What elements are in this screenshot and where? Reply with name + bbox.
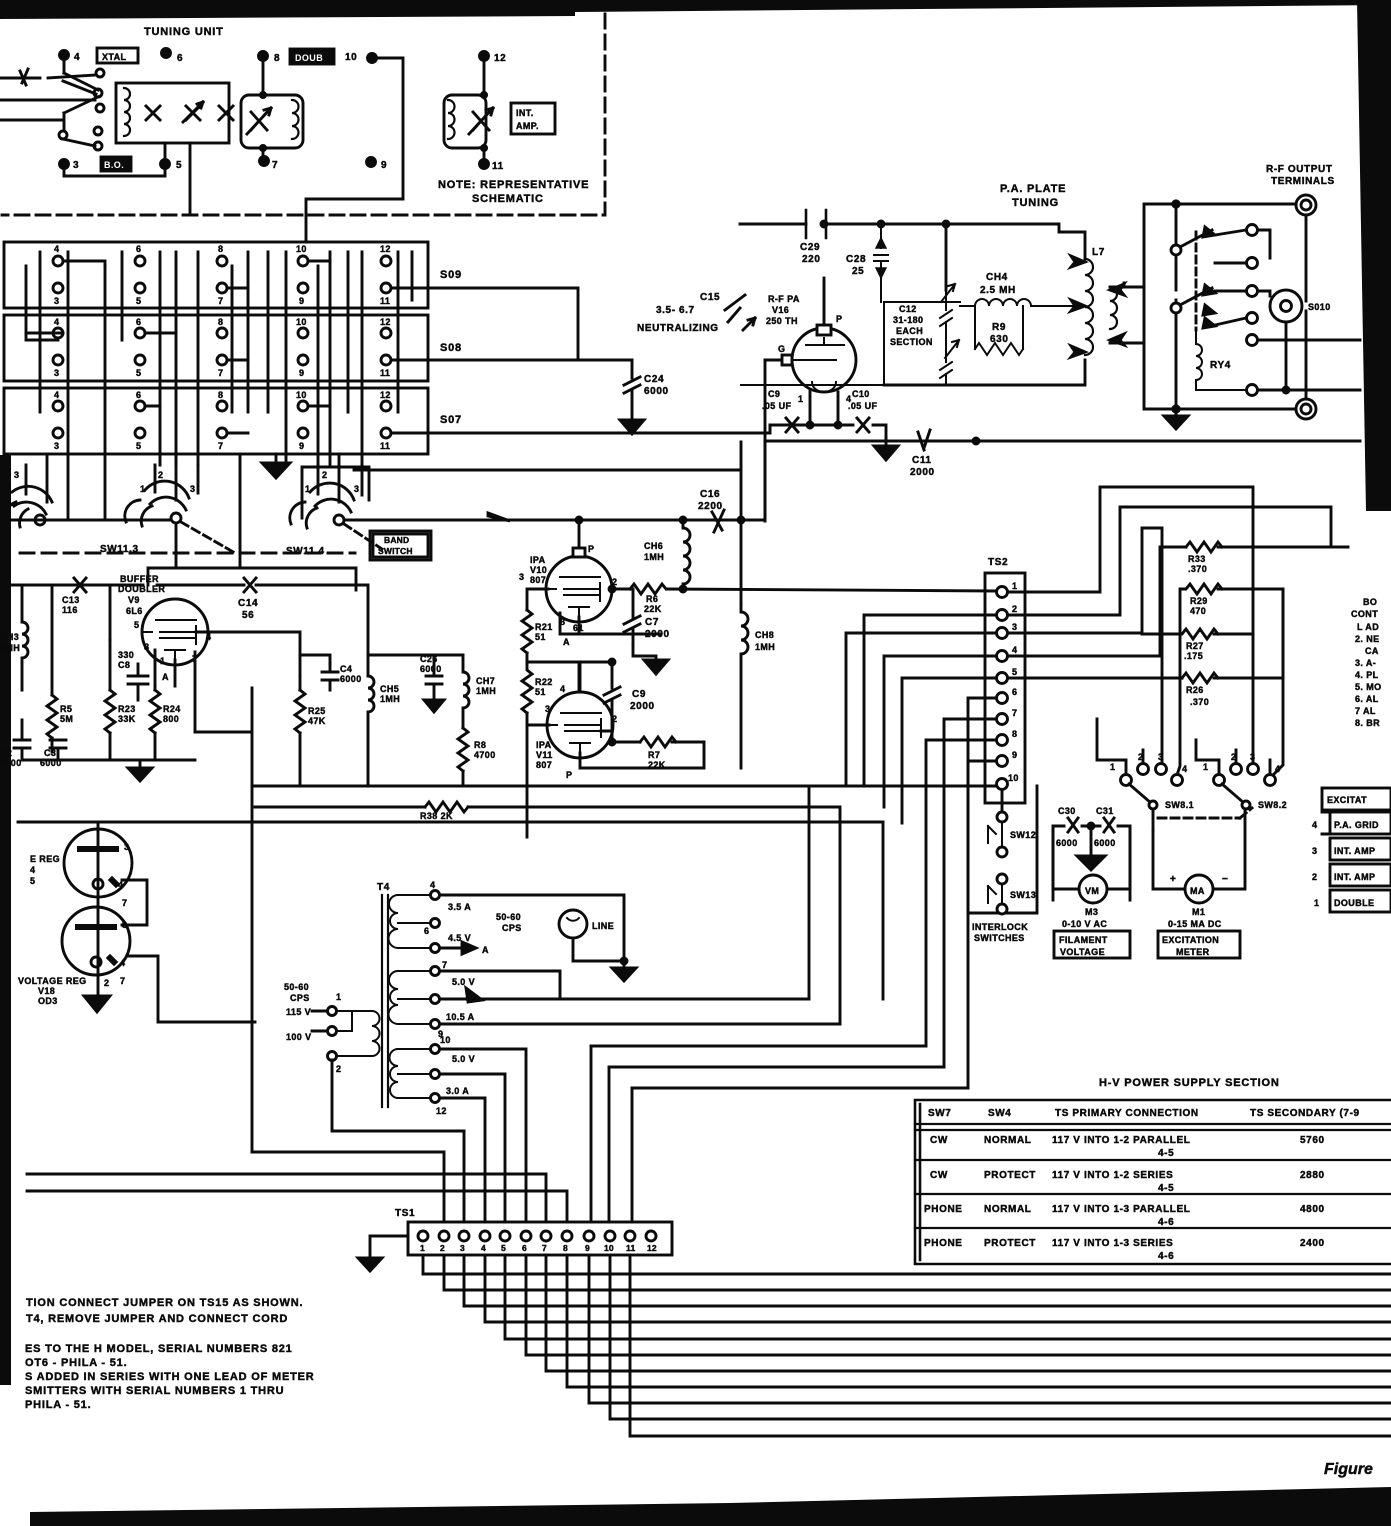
svg-text:SW11.4: SW11.4 <box>286 546 325 557</box>
svg-text:7: 7 <box>218 368 223 378</box>
BAND SWITCH label box <box>370 531 431 560</box>
svg-text:9: 9 <box>1012 750 1017 760</box>
T4 primary winding <box>332 1011 380 1056</box>
svg-text:8: 8 <box>1012 729 1017 739</box>
band switch dashed shaft line <box>20 552 355 555</box>
svg-text:SW8.2: SW8.2 <box>1258 800 1287 810</box>
svg-text:47K: 47K <box>308 716 326 726</box>
FILAMENT VOLTAGE box <box>1054 931 1130 958</box>
svg-text:3: 3 <box>460 1243 465 1253</box>
V16 grid column <box>764 360 767 521</box>
svg-text:2000: 2000 <box>910 467 935 478</box>
svg-text:DOUB: DOUB <box>295 53 323 63</box>
label C3 6000 <box>40 748 62 768</box>
selector contact circles <box>96 69 104 77</box>
svg-text:CW: CW <box>930 1170 948 1181</box>
relay armature pivots <box>1171 245 1181 255</box>
svg-text:8: 8 <box>274 53 280 64</box>
svg-text:CH4: CH4 <box>986 272 1008 283</box>
choke CH6 <box>683 521 690 589</box>
resistor R23 <box>105 640 115 760</box>
svg-text:BUFFER: BUFFER <box>120 574 159 584</box>
rotary wafer SW11.4 arcs <box>290 483 354 528</box>
svg-text:2: 2 <box>104 978 109 988</box>
svg-text:CONT: CONT <box>1351 609 1378 619</box>
svg-text:DOUBLE: DOUBLE <box>1334 898 1374 908</box>
svg-text:115 V: 115 V <box>286 1007 311 1017</box>
label C26 6000 <box>420 654 442 674</box>
wire rotor SW11.3 left <box>9 519 171 522</box>
dot C28 top <box>878 221 884 227</box>
grid rail y585 <box>9 585 368 676</box>
transformer T4 core <box>382 895 388 1107</box>
rotary wafer SW11.4 frame <box>302 467 369 518</box>
svg-text:4: 4 <box>1182 764 1187 774</box>
svg-text:11: 11 <box>492 161 504 172</box>
svg-text:2: 2 <box>1012 604 1017 614</box>
svg-text:R38 2K: R38 2K <box>420 811 453 821</box>
meter MA <box>1185 875 1213 903</box>
fan wire 6 <box>526 1255 1391 1355</box>
svg-text:6000: 6000 <box>340 674 362 684</box>
svg-text:630: 630 <box>990 334 1009 345</box>
SW8 feed wires <box>1097 589 1283 774</box>
label C24 6000 <box>644 374 669 397</box>
svg-text:7: 7 <box>442 960 447 970</box>
svg-text:A: A <box>162 672 169 682</box>
svg-text:PHONE: PHONE <box>924 1238 963 1249</box>
terminal 5 <box>161 160 170 169</box>
svg-text:5: 5 <box>136 368 141 378</box>
svg-text:C7: C7 <box>645 617 659 628</box>
ground below C10 <box>874 446 898 460</box>
hv table header rules <box>915 1124 1391 1228</box>
fan wire 7 <box>546 1255 1391 1371</box>
svg-text:P.A. GRID: P.A. GRID <box>1334 820 1379 830</box>
svg-text:33K: 33K <box>118 714 136 724</box>
SW11.4 pin wires <box>318 454 362 502</box>
label R5 5M <box>60 704 73 724</box>
svg-text:P: P <box>566 770 572 780</box>
resistor R21 <box>522 610 532 662</box>
TS2 t10 bottom stub <box>1001 790 1004 811</box>
meter VM <box>1079 875 1107 903</box>
svg-text:TS PRIMARY CONNECTION: TS PRIMARY CONNECTION <box>1055 1108 1199 1119</box>
svg-text:1: 1 <box>140 484 145 494</box>
svg-text:C24: C24 <box>644 374 664 385</box>
svg-text:NORMAL: NORMAL <box>984 1204 1031 1215</box>
svg-text:INT. AMP: INT. AMP <box>1334 872 1375 882</box>
label R21 51 <box>535 622 553 642</box>
switch arm <box>63 81 96 146</box>
V11 pin2 rail y742 <box>601 731 704 742</box>
svg-text:3: 3 <box>54 441 59 451</box>
excitation selector table <box>1322 788 1391 810</box>
V9 pin numbers <box>134 620 211 682</box>
relay frame wires <box>1144 204 1306 409</box>
label C11 2000 <box>910 455 935 478</box>
svg-text:3: 3 <box>73 160 79 171</box>
svg-text:EXCITATION: EXCITATION <box>1162 935 1219 945</box>
labels 3.5A 4.5V <box>424 880 471 943</box>
TS1 ground <box>370 1236 408 1258</box>
svg-text:4: 4 <box>1275 764 1280 774</box>
label C9 .05 UF <box>762 389 792 411</box>
svg-text:6: 6 <box>424 926 429 936</box>
TS2 terminals <box>997 587 1008 790</box>
vertical x741 pa feed <box>740 442 743 604</box>
capacitor C2 <box>14 720 30 760</box>
svg-text:11: 11 <box>380 441 390 451</box>
svg-text:E REG: E REG <box>30 854 60 864</box>
svg-text:2.5 MH: 2.5 MH <box>980 285 1016 296</box>
svg-text:C3: C3 <box>44 748 56 758</box>
resistor R24 <box>150 686 160 760</box>
svg-text:TERMINALS: TERMINALS <box>1271 176 1335 187</box>
svg-text:AMP.: AMP. <box>516 121 539 131</box>
svg-text:VOLTAGE REG: VOLTAGE REG <box>18 976 87 986</box>
svg-text:7: 7 <box>122 898 127 908</box>
svg-text:3: 3 <box>124 842 129 852</box>
svg-text:R27: R27 <box>1186 641 1204 651</box>
svg-text:9: 9 <box>381 160 387 171</box>
svg-text:22K: 22K <box>648 760 666 770</box>
svg-text:C26: C26 <box>420 654 438 664</box>
svg-text:3: 3 <box>1012 622 1017 632</box>
arrow on drive line <box>488 513 510 521</box>
svg-text:3.0 A: 3.0 A <box>446 1086 469 1096</box>
svg-text:C9: C9 <box>632 689 646 700</box>
choke CH8 <box>741 604 748 768</box>
svg-text:TS1: TS1 <box>395 1208 415 1219</box>
svg-text:7: 7 <box>218 296 223 306</box>
svg-text:CH6: CH6 <box>644 541 663 551</box>
svg-text:470: 470 <box>1190 606 1206 616</box>
wires V9 cathode down <box>155 650 195 732</box>
VR2 pin numbers <box>120 920 127 986</box>
interlock SW12 <box>997 812 1007 822</box>
label R23 33K <box>118 704 136 724</box>
svg-text:.370: .370 <box>1190 697 1209 707</box>
label C15 neutralizing <box>637 292 720 334</box>
svg-text:R24: R24 <box>163 704 181 714</box>
svg-text:5M: 5M <box>60 714 73 724</box>
svg-text:VM: VM <box>1085 886 1099 896</box>
svg-text:4-5: 4-5 <box>1158 1183 1174 1194</box>
primary feed stubs <box>312 1011 464 1131</box>
SW8.2 numbers <box>1203 752 1280 774</box>
svg-text:117 V INTO 1-2 SERIES: 117 V INTO 1-2 SERIES <box>1052 1170 1173 1181</box>
label R9 630 <box>990 322 1009 345</box>
svg-text:C12: C12 <box>899 304 917 314</box>
svg-text:50-60: 50-60 <box>284 982 309 992</box>
svg-text:4: 4 <box>560 684 565 694</box>
S09 contacts row <box>53 256 391 438</box>
svg-text:1MH: 1MH <box>476 686 496 696</box>
switch SW8.2 contacts <box>1214 764 1276 786</box>
wire plate line right: rail y589 <box>612 589 996 591</box>
svg-text:A: A <box>563 637 570 647</box>
wire bank jumpers <box>26 261 330 433</box>
capacitor (xtal tank right) <box>219 106 233 120</box>
rf terminal bottom <box>1296 399 1316 419</box>
svg-text:8: 8 <box>218 244 223 254</box>
TS2 left wires staircase <box>846 615 996 1088</box>
svg-text:T4, REMOVE JUMPER AND CONNE: T4, REMOVE JUMPER AND CONNECT CORD <box>26 1313 288 1325</box>
relay coil <box>1196 330 1246 390</box>
svg-text:R25: R25 <box>308 706 326 716</box>
svg-text:IPA: IPA <box>530 555 546 565</box>
svg-text:5: 5 <box>136 441 141 451</box>
svg-text:CH7: CH7 <box>476 676 495 686</box>
label CH6 1MH <box>644 541 664 562</box>
svg-text:10.5 A: 10.5 A <box>446 1012 475 1022</box>
svg-text:SW8.1: SW8.1 <box>1165 800 1194 810</box>
svg-text:SECTION: SECTION <box>890 337 933 347</box>
capacitor C29 <box>806 210 826 238</box>
label R7 22K <box>648 750 666 770</box>
svg-text:V16: V16 <box>772 305 789 315</box>
svg-text:3: 3 <box>54 296 59 306</box>
relay contact arrows <box>1203 227 1215 328</box>
pa bottom rail y441 <box>765 440 1360 443</box>
svg-text:A: A <box>482 945 489 955</box>
svg-text:6000: 6000 <box>644 386 669 397</box>
choke CH3 <box>22 585 28 690</box>
svg-text:4: 4 <box>54 317 59 327</box>
svg-text:50-60: 50-60 <box>496 912 521 922</box>
label CH5 1MH <box>380 684 400 704</box>
svg-text:2880: 2880 <box>1300 1170 1325 1181</box>
label R26 .370 <box>1186 685 1209 707</box>
variable capacitor (doubler) <box>247 108 271 134</box>
svg-text:1: 1 <box>798 394 803 404</box>
svg-text:TS SECONDARY (7-9: TS SECONDARY (7-9 <box>1250 1108 1360 1119</box>
svg-text:1: 1 <box>336 992 341 1002</box>
svg-text:INT. AMP: INT. AMP <box>1334 846 1375 856</box>
variable capacitor C12b <box>940 340 959 385</box>
svg-text:12: 12 <box>436 1106 447 1116</box>
coil (int amp) <box>448 100 455 139</box>
scan artifact: top black bar <box>0 0 1391 19</box>
junction dots y441 <box>973 438 979 444</box>
svg-text:12: 12 <box>380 244 391 254</box>
svg-text:NOTE: REPRESENTATIVE: NOTE: REPRESENTATIVE <box>438 179 589 191</box>
C12 tank box <box>741 302 960 385</box>
svg-text:L AD: L AD <box>1357 622 1379 632</box>
V11 top pin wire <box>579 662 582 692</box>
svg-text:R22: R22 <box>535 677 553 687</box>
svg-text:3: 3 <box>190 484 195 494</box>
terminal 11 <box>480 160 489 169</box>
doubler tank enclosure <box>241 95 303 148</box>
labels 5.0V 10.5A <box>438 960 475 1039</box>
terminal strip TS1 box <box>408 1222 672 1255</box>
wires secondary3 down to TS1 <box>440 1049 526 1222</box>
svg-text:8: 8 <box>218 390 223 400</box>
svg-text:4-5: 4-5 <box>1158 1148 1174 1159</box>
SW11.3 pin wires <box>155 454 198 500</box>
svg-text:117 V INTO 1-2 PARALLEL: 117 V INTO 1-2 PARALLEL <box>1052 1135 1190 1146</box>
svg-text:10: 10 <box>440 1035 451 1045</box>
svg-text:R21: R21 <box>535 622 553 632</box>
label BUFFER DOUBLER V9 6L6 <box>118 574 165 616</box>
resistor R26 <box>1182 673 1283 683</box>
svg-text:8: 8 <box>144 642 149 652</box>
svg-text:5: 5 <box>176 160 182 171</box>
label CH4 2.5MH <box>980 272 1016 296</box>
svg-text:5. MO: 5. MO <box>1355 682 1382 692</box>
svg-text:B.O.: B.O. <box>104 160 124 170</box>
label 50-60 CPS (lamp) <box>496 912 522 933</box>
svg-text:2: 2 <box>322 470 327 480</box>
switch SW8.1 contacts <box>1121 764 1183 786</box>
svg-text:4. PL: 4. PL <box>1355 670 1379 680</box>
fan wire 2 <box>444 1255 1391 1290</box>
resistor R5 <box>47 585 57 752</box>
svg-text:250 TH: 250 TH <box>766 316 798 326</box>
svg-text:T4: T4 <box>377 882 390 893</box>
switch bank S09 box <box>4 242 428 308</box>
svg-text:6: 6 <box>136 390 141 400</box>
bank crossing vertical wires <box>26 252 412 520</box>
EXCITATION METER box <box>1158 931 1240 958</box>
V16 pin labels <box>778 314 851 404</box>
V10 grid wire to R21 <box>527 589 548 610</box>
relay coil dashed link <box>1195 232 1198 330</box>
V11 plate down and right <box>580 742 704 768</box>
svg-text:SCHEMATIC: SCHEMATIC <box>472 193 544 205</box>
svg-text:R-F OUTPUT: R-F OUTPUT <box>1266 164 1333 175</box>
fan wire 10 <box>610 1255 1391 1419</box>
mid horizontals lower <box>440 999 968 1088</box>
svg-text:10: 10 <box>604 1243 614 1253</box>
vr top rail <box>18 821 883 824</box>
svg-text:807: 807 <box>530 575 546 585</box>
svg-text:12: 12 <box>380 317 391 327</box>
svg-text:R6: R6 <box>646 594 658 604</box>
svg-text:4: 4 <box>430 880 435 890</box>
svg-text:4700: 4700 <box>474 750 496 760</box>
svg-text:4: 4 <box>120 958 125 968</box>
svg-text:4-6: 4-6 <box>1158 1251 1174 1262</box>
T4 secondary 1 terminals <box>431 891 440 953</box>
svg-text:4-6: 4-6 <box>1158 1217 1174 1228</box>
resistor R6 (on rail) <box>630 584 666 594</box>
svg-text:4: 4 <box>54 244 59 254</box>
labels 50-60 CPS 115V 100V <box>284 982 341 1074</box>
fan wire 9 <box>589 1255 1391 1403</box>
S07 contacts row <box>53 401 63 411</box>
VM wires <box>1053 826 1130 889</box>
svg-text:807: 807 <box>536 760 552 770</box>
T4 secondary winding 1 <box>389 895 436 948</box>
svg-text:220: 220 <box>802 254 821 265</box>
svg-text:5: 5 <box>30 876 35 886</box>
svg-text:S08: S08 <box>440 342 462 354</box>
label R-F OUTPUT TERMINALS <box>1266 164 1335 187</box>
svg-text:C9: C9 <box>768 389 780 399</box>
wire VR rail to TS1-2 <box>252 1152 444 1222</box>
svg-text:100 V: 100 V <box>286 1032 312 1042</box>
svg-text:2: 2 <box>440 1243 445 1253</box>
svg-text:−: − <box>1222 874 1228 885</box>
svg-text:S07: S07 <box>440 414 462 426</box>
svg-text:117 V INTO 1-3 PARALLEL: 117 V INTO 1-3 PARALLEL <box>1052 1204 1190 1215</box>
svg-text:7: 7 <box>542 1243 547 1253</box>
bottom rail to column <box>195 688 252 1152</box>
svg-text:TS2: TS2 <box>988 557 1008 568</box>
svg-text:6: 6 <box>1012 687 1017 697</box>
MA polarity <box>1170 874 1228 885</box>
svg-text:C14: C14 <box>238 598 258 609</box>
svg-text:C11: C11 <box>912 455 932 466</box>
label M1 meter <box>1168 907 1222 929</box>
variable capacitor (int amp) <box>469 108 493 134</box>
crystal switch selector wires <box>0 55 100 131</box>
svg-text:4: 4 <box>206 632 211 642</box>
svg-text:BAND: BAND <box>384 535 409 545</box>
V10 plate pin P <box>578 521 581 556</box>
wire R23 top to grid rail <box>109 585 112 640</box>
TS1 terminals <box>418 1231 656 1241</box>
svg-text:22K: 22K <box>644 604 662 614</box>
svg-text:3: 3 <box>1312 846 1317 856</box>
long rails to TS1 7/8 <box>27 1174 567 1222</box>
resistor R29 <box>1178 584 1283 774</box>
svg-text:4.5 V: 4.5 V <box>448 933 471 943</box>
V16 grid lead <box>765 359 792 362</box>
verticals down to TS1 <box>591 1046 632 1222</box>
svg-text:C30: C30 <box>1058 806 1076 816</box>
svg-text:0-10 V AC: 0-10 V AC <box>1062 919 1107 929</box>
resistor R25 <box>295 676 305 786</box>
label R-F PA V16 250TH <box>766 294 800 326</box>
svg-text:R-F PA: R-F PA <box>768 294 800 304</box>
fan wire 1 <box>423 1255 1391 1274</box>
label C7 2000 <box>645 617 670 640</box>
svg-text:9: 9 <box>585 1243 590 1253</box>
variable capacitor C12a <box>940 284 955 345</box>
coil L xtal <box>124 88 130 136</box>
lamp LINE <box>559 910 587 938</box>
C30/C31 rail <box>1053 826 1130 900</box>
TS2 terminal numbers <box>1008 581 1019 783</box>
mid horizontals from left <box>882 822 885 999</box>
terminal 4 <box>60 51 69 60</box>
label C4 6000 <box>340 664 362 684</box>
dot tank <box>943 221 949 227</box>
svg-text:EXCITAT: EXCITAT <box>1327 795 1367 805</box>
V11 pin numbers <box>545 684 617 780</box>
bottom rail y790 <box>252 785 469 788</box>
INT. AMP label box <box>511 103 555 134</box>
svg-text:7: 7 <box>1012 708 1017 718</box>
label R27 .175 <box>1184 641 1204 661</box>
svg-text:SW4: SW4 <box>988 1108 1011 1119</box>
svg-text:INTERLOCK: INTERLOCK <box>972 922 1028 932</box>
labels C30 C31 <box>1056 806 1116 848</box>
svg-text:25: 25 <box>852 266 864 277</box>
S010 stem <box>1285 322 1288 390</box>
svg-text:1MH: 1MH <box>644 552 664 562</box>
svg-text:3: 3 <box>519 572 524 582</box>
svg-text:V10: V10 <box>530 565 547 575</box>
SW8.1 numbers <box>1110 752 1187 774</box>
label C9 2000 <box>630 689 655 712</box>
relay armature arms <box>1180 230 1212 305</box>
svg-text:PROTECT: PROTECT <box>984 1170 1036 1181</box>
